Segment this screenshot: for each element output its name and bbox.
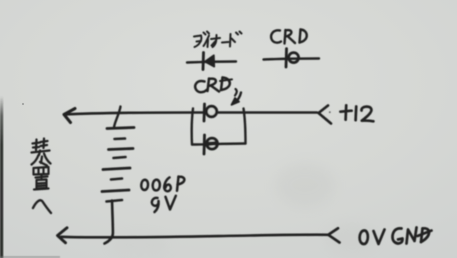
junction tick battery / +12 rail (114, 107, 121, 128)
diode legend symbol (187, 53, 236, 70)
CRD bottom body circle (207, 138, 218, 149)
paper smudges (275, 163, 335, 207)
battery plate long 4 (102, 190, 129, 192)
label CRD (pointing to parallel pair) (195, 78, 232, 93)
label 006P (141, 177, 184, 192)
top wire +12 rail (64, 113, 317, 115)
paper speck (22, 103, 24, 105)
label 置 (34, 167, 49, 190)
photo edge dark strip left (0, 96, 3, 258)
battery plate short 2 (114, 157, 126, 158)
label CRD (legend) (271, 30, 307, 44)
label へ (33, 200, 51, 213)
battery 006P positive plate (107, 128, 134, 129)
CRD bottom cathode bar (203, 135, 206, 154)
bottom wire 0V GND rail (61, 235, 328, 238)
label 9V (152, 196, 176, 212)
label ダイオード (diode) (194, 32, 242, 48)
CRD legend symbol (264, 49, 320, 67)
arrow from CRD label to top CRD (232, 89, 242, 105)
battery plate short 3 (111, 179, 122, 180)
label +12 (340, 105, 373, 121)
left arrowhead of GND rail (58, 228, 68, 243)
photo edge dark line bottom-left (0, 256, 60, 258)
right connector fork of GND rail (328, 228, 339, 242)
label 装 (vertical text 装置へ) (32, 139, 51, 166)
battery plate long 2 (109, 149, 134, 150)
label 0V GND (360, 228, 432, 245)
left branch of CRD parallel pair (192, 109, 193, 145)
CRD bottom inner dash (208, 141, 216, 146)
battery negative lead to GND rail (105, 201, 113, 244)
CRD top body circle (206, 106, 216, 116)
ink speck near fork (329, 111, 331, 113)
CRD top cathode bar (203, 104, 206, 121)
left arrowhead of +12 rail (64, 109, 75, 123)
right branch of CRD parallel pair (244, 109, 246, 144)
battery plate short 1 (115, 137, 126, 140)
right connector fork of +12 rail (319, 106, 332, 124)
bottom branch wire of CRD parallel pair (192, 144, 246, 145)
battery negative crossbar (107, 200, 123, 202)
battery plate long 3 (103, 168, 130, 170)
